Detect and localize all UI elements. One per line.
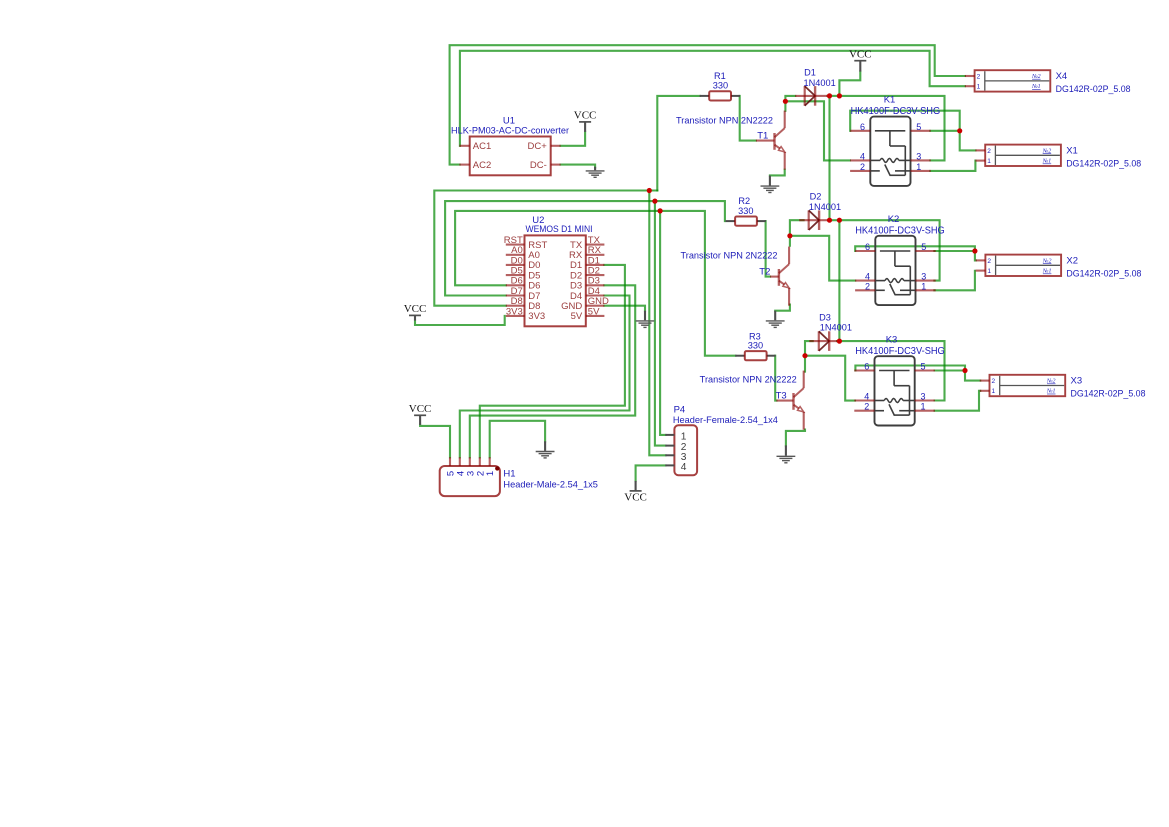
node VCC rail junction at D2 (right) — [837, 218, 842, 223]
pin D8 of U2 (left) — [506, 296, 541, 312]
svg-text:5V: 5V — [571, 311, 583, 322]
pin 5 of H1 — [446, 457, 457, 476]
pin1 marker dot of H1 — [495, 466, 499, 470]
svg-text:330: 330 — [713, 80, 728, 90]
svg-text:4: 4 — [681, 462, 687, 473]
svg-text:Transistor NPN 2N2222: Transistor NPN 2N2222 — [676, 116, 773, 126]
pin A0 of U2 (left) — [506, 245, 540, 261]
pin 6 of K2 — [855, 242, 875, 252]
svg-text:6: 6 — [860, 122, 865, 132]
pin D6 of U2 (left) — [506, 276, 541, 292]
pin D3 of U2 (right) — [570, 276, 604, 292]
svg-text:2: 2 — [987, 258, 991, 265]
wire VCC rail to K3 pin3 — [839, 341, 944, 400]
pin 2 of X3 — [980, 378, 996, 385]
wire R1 to T1 base — [740, 96, 756, 141]
svg-text:3: 3 — [916, 151, 921, 161]
svg-text:5V: 5V — [588, 306, 600, 317]
svg-text:H1: H1 — [503, 469, 515, 480]
svg-text:VCC: VCC — [574, 110, 597, 122]
wire K1 pin1 to X1 pin1 — [930, 161, 975, 171]
svg-text:D3: D3 — [819, 312, 831, 322]
pin D1 of U2 (right) — [570, 255, 604, 271]
svg-text:T2: T2 — [759, 267, 770, 278]
svg-text:№2: №2 — [1046, 379, 1056, 385]
svg-text:3: 3 — [921, 272, 926, 282]
diode D1 — [795, 86, 827, 106]
resistor R2 — [726, 217, 766, 226]
svg-text:AC2: AC2 — [473, 160, 491, 171]
wire T2 collector node down — [789, 236, 791, 246]
power VCC at U2 3V3 — [404, 303, 427, 320]
wire net D7: U2 D7 to R2 — [445, 201, 725, 295]
wire T3 collector to K3 pin4 — [805, 356, 855, 401]
pin 2 of X2 — [976, 258, 992, 265]
pin D4 of U2 (right) — [570, 286, 604, 302]
pin D0 of U2 (left) — [506, 255, 541, 271]
pin 1 of X2 — [976, 268, 992, 275]
wire D3 cathode link — [837, 340, 839, 342]
wire U2 GND to ground — [604, 306, 645, 311]
pin RST of U2 (left) — [504, 235, 548, 251]
svg-text:DG142R-02P_5.08: DG142R-02P_5.08 — [1071, 389, 1146, 400]
svg-text:DC-: DC- — [530, 160, 547, 171]
ground at T2 emitter — [766, 311, 785, 328]
svg-text:330: 330 — [748, 340, 763, 350]
node D7 junction at P4 pin2 tap — [652, 199, 657, 204]
pin 3 of K1 — [911, 151, 931, 161]
pin 6 of K3 — [854, 362, 874, 372]
pin 1 of K1 — [911, 162, 931, 172]
node VCC rail junction at D1 (right) — [837, 93, 842, 98]
connector X4 — [975, 70, 1051, 91]
wire K2 pin5 to node — [934, 250, 975, 252]
diode D2 — [799, 210, 831, 230]
power VCC at H1 pin5 — [409, 403, 432, 425]
svg-text:2: 2 — [864, 402, 869, 412]
pin 3V3 of U2 (left) — [506, 306, 545, 322]
pin 3 of H1 — [465, 457, 476, 476]
ground at T1 emitter — [761, 176, 780, 193]
pin 6 of K1 — [850, 122, 870, 132]
pin 1 of X3 — [980, 388, 996, 395]
wire R3 to T3 base — [775, 356, 776, 401]
relay K1 — [870, 117, 910, 186]
svg-text:1: 1 — [921, 281, 926, 291]
svg-text:3V3: 3V3 — [528, 311, 545, 322]
wire VCC to U2 3V3 — [415, 316, 505, 325]
svg-text:VCC: VCC — [624, 492, 647, 504]
wire T2 collector node to D2 anode — [790, 220, 804, 236]
pin 1 of K3 — [915, 402, 935, 412]
wire K3 pin6 to pin5 node — [855, 366, 965, 371]
wire VCC to H1 pin5 — [420, 425, 450, 458]
node T2 collector junction — [787, 233, 792, 238]
svg-text:1N4001: 1N4001 — [820, 322, 852, 332]
ground at U1 DC- — [586, 167, 605, 178]
svg-text:1N4001: 1N4001 — [809, 202, 841, 212]
pin 2 of X1 — [975, 148, 991, 155]
wire K3 pin1 to X3 pin1 — [935, 391, 981, 411]
svg-text:DG142R-02P_5.08: DG142R-02P_5.08 — [1056, 84, 1131, 95]
wire rail D1 row to D2 row — [828, 96, 830, 220]
wire T3 emitter to ground — [786, 430, 805, 446]
svg-text:5: 5 — [916, 122, 921, 132]
svg-text:D1: D1 — [804, 68, 816, 78]
transistor T2 — [770, 247, 789, 306]
svg-text:2: 2 — [860, 162, 865, 172]
wire R2 to T2 base — [766, 221, 770, 277]
wire U2 D1 to H1 pin2 — [480, 265, 625, 457]
wire H1 pin1 to ground — [490, 421, 545, 458]
node D8 junction at P4 pin3 tap — [647, 188, 652, 193]
wire K3 pin5 node to X3 pin2 — [965, 371, 980, 381]
pin 3 of P4 — [665, 452, 687, 463]
pin 1 of H1 — [485, 457, 496, 476]
svg-text:1: 1 — [992, 388, 996, 395]
svg-text:HK4100F-DC3V-SHG: HK4100F-DC3V-SHG — [851, 106, 941, 117]
wire T2 collector to K2 pin4 — [790, 236, 855, 281]
diode D3 — [809, 331, 841, 351]
wire U2 D4 to H1 pin4 — [460, 296, 630, 458]
pin 4 of K2 — [855, 272, 875, 282]
pin D2 of U2 (right) — [570, 266, 604, 282]
node T3 collector junction — [802, 353, 807, 358]
power VCC near D1 — [849, 49, 872, 72]
svg-text:X4: X4 — [1056, 71, 1068, 82]
wire K2 pin1 to X2 pin1 — [934, 271, 975, 291]
svg-text:1: 1 — [681, 432, 687, 443]
connector X3 — [990, 375, 1066, 396]
pin D5 of U2 (left) — [506, 266, 541, 282]
svg-text:3V3: 3V3 — [506, 306, 523, 317]
svg-text:DC+: DC+ — [528, 141, 548, 152]
ground at U2 GND — [636, 311, 655, 328]
resistor R3 — [735, 351, 775, 360]
wire AC2 to X4 pin2 — [450, 45, 965, 164]
pin 3 of K2 — [916, 272, 936, 282]
svg-text:1: 1 — [485, 471, 496, 476]
svg-text:VCC: VCC — [404, 303, 427, 315]
node K1 pin5 junction — [957, 128, 962, 133]
node K2 pin5 junction — [972, 248, 977, 253]
node T1 collector junction — [783, 99, 788, 104]
svg-text:330: 330 — [738, 206, 753, 216]
wire net D7 to P4 pin2 — [655, 201, 666, 446]
pin GND of U2 (right) — [561, 296, 609, 312]
svg-text:4: 4 — [860, 151, 865, 161]
svg-text:№2: №2 — [1031, 74, 1041, 80]
wire T1 collector node to D1 anode — [785, 96, 795, 101]
svg-text:D2: D2 — [810, 192, 822, 202]
svg-text:AC1: AC1 — [473, 141, 491, 152]
svg-text:2: 2 — [992, 378, 996, 385]
pin AC2 of U1 — [459, 160, 491, 171]
svg-text:T3: T3 — [776, 391, 787, 402]
pin 3 of K3 — [915, 392, 935, 402]
wire T1 collector to K1 pin4 — [785, 101, 850, 160]
wire T1 collector node down — [784, 101, 786, 111]
ground at T3 emitter — [777, 445, 796, 462]
pin 2 of P4 — [665, 442, 687, 453]
svg-text:№1: №1 — [1031, 84, 1041, 90]
transistor T1 — [756, 111, 785, 170]
wire K1 pin6 to pin5 node — [850, 111, 960, 131]
connector X2 — [985, 255, 1061, 276]
pin TX of U2 (right) — [570, 235, 604, 251]
svg-text:HK4100F-DC3V-SHG: HK4100F-DC3V-SHG — [855, 226, 945, 237]
svg-text:Transistor NPN 2N2222: Transistor NPN 2N2222 — [681, 250, 778, 260]
wire P4 pin4 to VCC — [636, 465, 666, 481]
svg-text:Header-Female-2.54_1x4: Header-Female-2.54_1x4 — [673, 415, 778, 426]
svg-text:X3: X3 — [1071, 376, 1083, 387]
pin 5 of K2 — [916, 242, 936, 252]
svg-text:4: 4 — [865, 272, 870, 282]
pin 4 of P4 — [665, 462, 687, 473]
svg-text:5: 5 — [921, 242, 926, 252]
pin RX of U2 (right) — [569, 245, 604, 261]
wire rail D2 row to D3 row — [838, 220, 840, 341]
svg-text:5: 5 — [920, 362, 925, 372]
resistor R1 — [700, 91, 740, 100]
connector P4 body — [674, 425, 697, 475]
pin D7 of U2 (left) — [506, 286, 541, 302]
svg-text:№1: №1 — [1042, 269, 1052, 275]
svg-text:HLK-PM03-AC-DC-converter: HLK-PM03-AC-DC-converter — [451, 126, 569, 137]
node K3 pin5 junction — [962, 368, 967, 373]
connector X1 — [985, 145, 1061, 166]
wire U2 D3 to H1 pin3 — [470, 285, 635, 457]
pin 1 of X4 — [965, 84, 981, 91]
pin DC- of U1 — [530, 160, 561, 171]
wire T3 collector node down — [804, 356, 806, 372]
pin 2 of K2 — [855, 281, 875, 291]
wire DC+ to VCC — [561, 132, 586, 146]
pin 5 of K1 — [911, 122, 931, 132]
pin 1 of K2 — [916, 281, 936, 291]
svg-text:DG142R-02P_5.08: DG142R-02P_5.08 — [1066, 268, 1141, 279]
svg-text:Transistor NPN 2N2222: Transistor NPN 2N2222 — [700, 374, 797, 384]
pin 2 of K3 — [854, 402, 874, 412]
wire D1 cathode link — [828, 95, 840, 97]
svg-text:№1: №1 — [1046, 389, 1056, 395]
wire net D8: U2 D8 to R1 feed — [434, 191, 657, 306]
power VCC at P4 pin4 — [624, 481, 647, 504]
wire T3 collector node to D3 anode — [805, 341, 813, 356]
svg-text:VCC: VCC — [409, 403, 432, 415]
svg-text:1: 1 — [920, 402, 925, 412]
wire T2 emitter to ground — [775, 305, 790, 311]
svg-text:K1: K1 — [884, 95, 896, 106]
relay K3 — [875, 356, 915, 425]
connector H1 body — [440, 466, 500, 496]
pin 4 of K3 — [854, 392, 874, 402]
svg-text:2: 2 — [987, 148, 991, 155]
wire D2 cathode link — [830, 219, 840, 221]
svg-text:DG142R-02P_5.08: DG142R-02P_5.08 — [1066, 158, 1141, 169]
svg-text:HK4100F-DC3V-SHG: HK4100F-DC3V-SHG — [855, 346, 945, 357]
svg-text:T1: T1 — [757, 131, 768, 142]
pin DC+ of U1 — [528, 141, 561, 152]
svg-text:X2: X2 — [1066, 255, 1078, 266]
pin 2 of K1 — [850, 162, 870, 172]
ground at H1 pin1 — [536, 441, 555, 458]
wire DC- to ground — [561, 165, 596, 168]
svg-text:№2: №2 — [1042, 258, 1052, 264]
node VCC rail junction at D3 — [837, 339, 842, 344]
wire net D6 to P4 pin1 — [660, 211, 665, 435]
wire K1 pin5 to node — [930, 130, 959, 132]
wire K1 pin5 node to X1 pin2 — [960, 131, 976, 151]
svg-text:№2: №2 — [1042, 148, 1052, 154]
svg-text:P4: P4 — [674, 405, 686, 416]
wire R1 left to net D8 — [657, 96, 700, 191]
svg-text:2: 2 — [977, 73, 981, 80]
wire K2 pin5 node to X2 pin2 — [974, 251, 977, 260]
pin 4 of K1 — [850, 151, 870, 161]
svg-text:1: 1 — [977, 84, 981, 91]
wire net D8 to P4 pin3 — [649, 191, 665, 456]
svg-text:K3: K3 — [886, 335, 898, 346]
wire K3 pin5 to node — [935, 369, 965, 371]
svg-text:R2: R2 — [738, 196, 750, 206]
relay K2 — [875, 236, 915, 305]
svg-text:4: 4 — [864, 392, 869, 402]
wire T1 emitter to ground — [770, 170, 785, 176]
pin 1 of X1 — [975, 158, 991, 165]
pin 5 of K3 — [915, 362, 935, 372]
power VCC at U1 DC+ — [574, 110, 597, 132]
svg-text:2: 2 — [865, 281, 870, 291]
node VCC rail junction at D1 (left) — [827, 93, 832, 98]
svg-text:WEMOS D1 MINI: WEMOS D1 MINI — [526, 224, 593, 235]
transistor T3 — [776, 371, 803, 430]
svg-text:VCC: VCC — [849, 49, 872, 61]
pin 4 of H1 — [455, 457, 466, 476]
svg-text:6: 6 — [864, 362, 869, 372]
pin AC1 of U1 — [459, 141, 491, 152]
IC U2 WEMOS D1 MINI body — [525, 235, 586, 326]
pin 1 of P4 — [665, 432, 687, 443]
wire VCC rail to K2 pin3 — [839, 220, 939, 280]
wire VCC rail to K1 pin3 — [839, 96, 944, 160]
wire K2 pin6 to pin5 node — [855, 246, 975, 251]
pin 2 of H1 — [475, 457, 486, 476]
svg-text:Header-Male-2.54_1x5: Header-Male-2.54_1x5 — [503, 480, 598, 491]
pin 5V of U2 (right) — [571, 306, 605, 322]
wire VCC to D1 cathode rail — [839, 71, 860, 96]
svg-text:3: 3 — [920, 392, 925, 402]
svg-text:1N4001: 1N4001 — [804, 78, 836, 88]
svg-text:№1: №1 — [1042, 159, 1052, 165]
svg-text:X1: X1 — [1066, 145, 1078, 156]
node VCC rail junction at D2 (left) — [827, 218, 832, 223]
svg-text:1: 1 — [916, 162, 921, 172]
svg-text:1: 1 — [987, 158, 991, 165]
node D6 junction at P4 pin1 tap — [658, 208, 663, 213]
pin 2 of X4 — [965, 73, 981, 80]
wire net D6: U2 D6 to R3 — [455, 211, 735, 356]
IC U1 HLK-PM03 body — [470, 137, 551, 176]
svg-text:1: 1 — [987, 268, 991, 275]
svg-text:6: 6 — [865, 242, 870, 252]
svg-text:K2: K2 — [888, 214, 900, 225]
wire AC1 to X4 pin1 — [460, 51, 965, 146]
